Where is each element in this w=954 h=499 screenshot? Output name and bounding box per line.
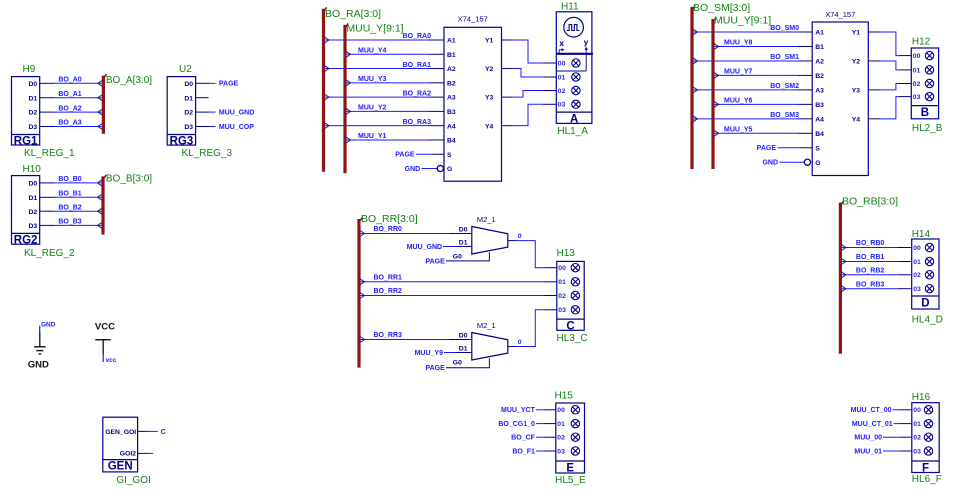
svg-text:MUU_CT_01: MUU_CT_01 — [852, 421, 893, 428]
svg-text:BO_RA2: BO_RA2 — [403, 90, 432, 97]
svg-text:BO_A2: BO_A2 — [58, 105, 81, 112]
svg-text:y: y — [584, 37, 589, 47]
svg-text:S: S — [815, 145, 820, 152]
svg-text:BO_RR0: BO_RR0 — [374, 226, 403, 233]
svg-text:GOI2: GOI2 — [120, 450, 136, 457]
svg-text:BO_SM2: BO_SM2 — [770, 83, 799, 90]
svg-text:Y4: Y4 — [485, 123, 494, 130]
svg-text:PAGE: PAGE — [395, 152, 415, 159]
svg-text:H9: H9 — [23, 64, 36, 75]
svg-text:GEN_GOI: GEN_GOI — [105, 429, 136, 436]
svg-text:KL_REG_1: KL_REG_1 — [24, 148, 75, 159]
svg-text:U2: U2 — [179, 64, 192, 75]
svg-text:x: x — [559, 38, 564, 48]
svg-text:MUU_Y6: MUU_Y6 — [724, 98, 753, 105]
svg-text:03: 03 — [558, 102, 566, 109]
svg-text:HL5_E: HL5_E — [555, 475, 586, 486]
svg-text:D3: D3 — [28, 124, 37, 131]
svg-text:X74_157: X74_157 — [825, 10, 855, 19]
svg-text:A1: A1 — [447, 38, 456, 45]
svg-text:B2: B2 — [447, 80, 456, 87]
svg-text:BO_SM1: BO_SM1 — [770, 54, 799, 61]
svg-text:00: 00 — [558, 265, 566, 272]
svg-text:03: 03 — [913, 448, 921, 455]
svg-text:02: 02 — [558, 293, 566, 300]
svg-text:D3: D3 — [184, 124, 193, 131]
svg-text:BO_RA[3:0]: BO_RA[3:0] — [325, 8, 381, 20]
svg-text:0: 0 — [518, 233, 522, 240]
svg-text:D0: D0 — [459, 333, 468, 340]
svg-text:B3: B3 — [447, 109, 456, 116]
svg-text:Y3: Y3 — [485, 95, 494, 102]
svg-text:BO_RR3: BO_RR3 — [374, 332, 403, 339]
svg-text:03: 03 — [913, 286, 921, 293]
svg-text:BO_RR[3:0]: BO_RR[3:0] — [361, 213, 418, 225]
svg-text:BO_B0: BO_B0 — [58, 176, 81, 183]
svg-text:02: 02 — [557, 435, 565, 442]
svg-text:MUU_Y9: MUU_Y9 — [415, 350, 444, 357]
svg-text:MUU_CT_00: MUU_CT_00 — [851, 407, 892, 414]
svg-text:A4: A4 — [815, 116, 824, 123]
svg-text:MUU_Y1: MUU_Y1 — [358, 133, 387, 140]
svg-text:BO_F1: BO_F1 — [512, 448, 535, 455]
svg-text:BO_A1: BO_A1 — [58, 91, 81, 98]
svg-text:RG3: RG3 — [170, 136, 194, 148]
svg-text:BO_CF: BO_CF — [511, 435, 535, 442]
svg-text:B3: B3 — [815, 102, 824, 109]
svg-text:H13: H13 — [557, 248, 576, 259]
svg-text:D0: D0 — [184, 81, 193, 88]
svg-text:BO_A0: BO_A0 — [58, 77, 81, 84]
svg-text:BO_RA3: BO_RA3 — [403, 119, 432, 126]
svg-text:RG2: RG2 — [14, 235, 38, 247]
svg-text:BO_A3: BO_A3 — [58, 120, 81, 127]
svg-text:BO_RR1: BO_RR1 — [374, 275, 403, 282]
svg-text:G: G — [815, 160, 820, 167]
svg-text:C: C — [566, 321, 574, 333]
svg-text:Y4: Y4 — [852, 116, 861, 123]
svg-text:KL_REG_3: KL_REG_3 — [182, 148, 233, 159]
svg-text:00: 00 — [913, 53, 921, 60]
svg-text:BO_RB1: BO_RB1 — [856, 254, 885, 261]
svg-text:D1: D1 — [28, 195, 37, 202]
svg-text:0: 0 — [518, 339, 522, 346]
svg-text:00: 00 — [913, 407, 921, 414]
svg-text:H11: H11 — [561, 1, 579, 12]
svg-text:GEN: GEN — [108, 461, 133, 473]
svg-text:00: 00 — [557, 407, 565, 414]
svg-text:D1: D1 — [459, 240, 468, 247]
svg-text:MUU_Y[9:1]: MUU_Y[9:1] — [346, 22, 403, 34]
svg-text:M2_1: M2_1 — [477, 321, 496, 330]
svg-text:MUU_01: MUU_01 — [854, 448, 882, 455]
svg-text:BO_RR2: BO_RR2 — [374, 288, 403, 295]
svg-text:MUU_GND: MUU_GND — [219, 110, 254, 117]
svg-text:G0: G0 — [453, 253, 462, 260]
svg-text:BO_B[3:0]: BO_B[3:0] — [106, 174, 152, 185]
svg-text:HL1_A: HL1_A — [557, 126, 588, 137]
svg-text:A2: A2 — [447, 66, 456, 73]
svg-text:HL3_C: HL3_C — [557, 333, 588, 344]
svg-text:H16: H16 — [912, 392, 931, 403]
svg-text:02: 02 — [913, 81, 921, 88]
svg-text:H10: H10 — [23, 164, 42, 175]
svg-text:01: 01 — [913, 259, 921, 266]
svg-text:D0: D0 — [459, 227, 468, 234]
svg-text:MUU_GND: MUU_GND — [407, 244, 442, 251]
svg-text:BO_A[3:0]: BO_A[3:0] — [106, 75, 152, 86]
svg-text:C: C — [161, 429, 166, 436]
svg-text:01: 01 — [913, 421, 921, 428]
svg-text:02: 02 — [913, 272, 921, 279]
svg-text:Y1: Y1 — [852, 30, 861, 37]
svg-text:02: 02 — [913, 435, 921, 442]
svg-text:RG1: RG1 — [14, 136, 38, 148]
svg-text:D1: D1 — [28, 95, 37, 102]
svg-text:MUU_Y3: MUU_Y3 — [358, 76, 387, 83]
svg-text:BO_SM0: BO_SM0 — [770, 25, 799, 32]
svg-text:B4: B4 — [447, 138, 456, 145]
svg-text:D: D — [921, 297, 929, 309]
svg-text:B1: B1 — [815, 44, 824, 51]
svg-text:BO_RB2: BO_RB2 — [856, 268, 885, 275]
svg-text:BO_SM[3:0]: BO_SM[3:0] — [693, 2, 750, 14]
svg-text:A1: A1 — [815, 30, 824, 37]
svg-text:03: 03 — [558, 307, 566, 314]
svg-text:01: 01 — [558, 279, 566, 286]
svg-text:BO_SM3: BO_SM3 — [770, 112, 799, 119]
svg-text:A: A — [570, 114, 578, 126]
svg-text:MUU_Y2: MUU_Y2 — [358, 105, 387, 112]
svg-text:vcc: vcc — [106, 357, 117, 364]
svg-text:01: 01 — [557, 421, 565, 428]
svg-text:GND: GND — [41, 322, 56, 329]
svg-text:D2: D2 — [184, 110, 193, 117]
svg-text:B1: B1 — [447, 52, 456, 59]
svg-text:MUU_Y4: MUU_Y4 — [358, 47, 387, 54]
svg-text:03: 03 — [557, 448, 565, 455]
svg-text:PAGE: PAGE — [757, 145, 777, 152]
svg-text:H15: H15 — [555, 391, 574, 402]
svg-text:BO_RB3: BO_RB3 — [856, 281, 885, 288]
svg-text:PAGE: PAGE — [425, 258, 445, 265]
svg-text:BO_B3: BO_B3 — [58, 219, 81, 226]
svg-text:F: F — [922, 462, 929, 474]
svg-text:Y1: Y1 — [485, 38, 494, 45]
svg-text:BO_CG1_0: BO_CG1_0 — [498, 421, 535, 428]
svg-text:HL2_B: HL2_B — [912, 123, 943, 134]
svg-text:G0: G0 — [453, 359, 462, 366]
svg-text:H12: H12 — [912, 37, 931, 48]
svg-text:PAGE: PAGE — [425, 365, 445, 372]
svg-text:D1: D1 — [459, 346, 468, 353]
svg-text:BO_RB[3:0]: BO_RB[3:0] — [842, 196, 898, 208]
svg-text:MUU_Y7: MUU_Y7 — [724, 69, 753, 76]
svg-text:G: G — [447, 166, 452, 173]
svg-text:E: E — [566, 462, 574, 474]
svg-text:D0: D0 — [28, 81, 37, 88]
svg-text:01: 01 — [913, 67, 921, 74]
svg-text:PAGE: PAGE — [219, 81, 239, 88]
svg-text:HL4_D: HL4_D — [912, 315, 943, 326]
svg-text:M2_1: M2_1 — [477, 215, 496, 224]
svg-text:B2: B2 — [815, 73, 824, 80]
svg-text:MUU_Y[9:1]: MUU_Y[9:1] — [714, 15, 771, 27]
svg-text:A3: A3 — [815, 87, 824, 94]
svg-text:KL_REG_2: KL_REG_2 — [24, 248, 75, 259]
svg-text:H14: H14 — [912, 229, 931, 240]
svg-text:02: 02 — [558, 88, 566, 95]
svg-text:01: 01 — [558, 74, 566, 81]
svg-text:D0: D0 — [28, 181, 37, 188]
svg-text:BO_RA0: BO_RA0 — [403, 33, 432, 40]
svg-text:MUU_Y8: MUU_Y8 — [724, 40, 753, 47]
svg-text:BO_B1: BO_B1 — [58, 191, 81, 198]
svg-text:00: 00 — [913, 245, 921, 252]
svg-text:D2: D2 — [28, 209, 37, 216]
svg-text:MUU_COP: MUU_COP — [219, 124, 254, 131]
svg-text:MUU_Y5: MUU_Y5 — [724, 126, 753, 133]
svg-text:03: 03 — [913, 94, 921, 101]
svg-text:S: S — [447, 152, 452, 159]
svg-text:MUU_00: MUU_00 — [854, 435, 882, 442]
svg-text:A4: A4 — [447, 123, 456, 130]
svg-text:GND: GND — [405, 166, 421, 173]
svg-text:00: 00 — [558, 60, 566, 67]
svg-text:GND: GND — [762, 160, 778, 167]
svg-text:X74_157: X74_157 — [458, 15, 488, 24]
svg-text:D1: D1 — [184, 95, 193, 102]
svg-text:BO_B2: BO_B2 — [58, 204, 81, 211]
svg-text:BO_RA1: BO_RA1 — [403, 62, 432, 69]
svg-text:B: B — [921, 107, 929, 119]
svg-text:Y2: Y2 — [852, 59, 861, 66]
svg-text:BO_RB0: BO_RB0 — [856, 240, 885, 247]
svg-text:D3: D3 — [28, 223, 37, 230]
svg-text:MUU_YCT: MUU_YCT — [501, 407, 536, 414]
svg-text:Y3: Y3 — [852, 87, 861, 94]
svg-text:A3: A3 — [447, 95, 456, 102]
svg-text:VCC: VCC — [95, 322, 115, 333]
svg-text:A2: A2 — [815, 59, 824, 66]
svg-text:Y2: Y2 — [485, 66, 494, 73]
svg-text:B4: B4 — [815, 131, 824, 138]
svg-text:D2: D2 — [28, 110, 37, 117]
svg-text:HL6_F: HL6_F — [912, 474, 942, 485]
svg-text:GI_GOI: GI_GOI — [116, 475, 150, 486]
svg-text:GND: GND — [28, 359, 49, 370]
